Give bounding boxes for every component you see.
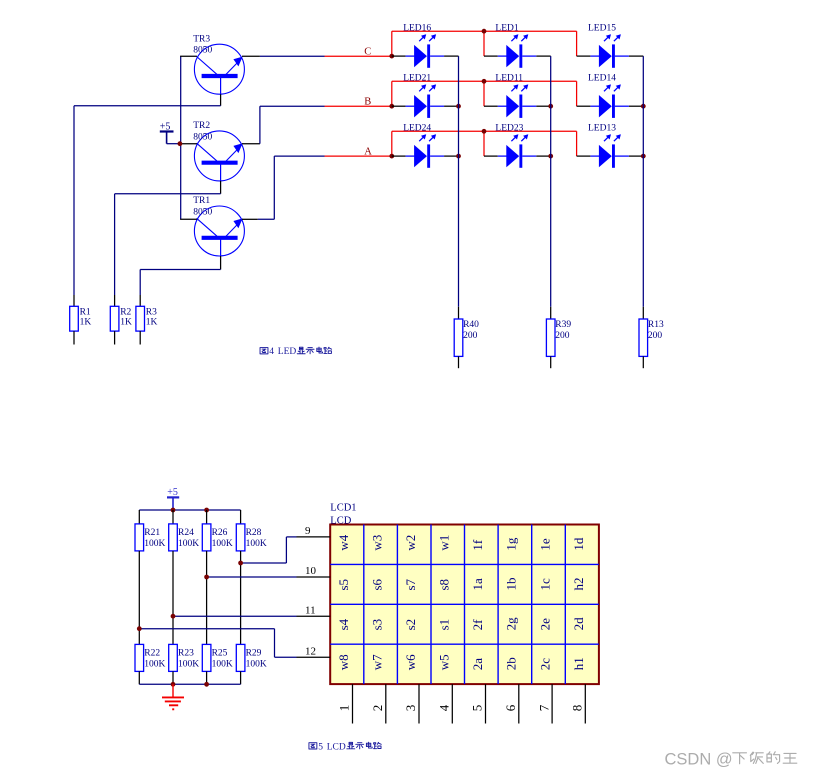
LCD cell label s8 <box>437 579 452 591</box>
LCD cell label w7 <box>369 654 384 670</box>
node: row C junction <box>389 54 394 59</box>
svg-text:LCD1: LCD1 <box>330 503 356 514</box>
wire: R29 top lead <box>240 563 242 644</box>
wire: cathode column 3 down to R13 <box>642 56 644 319</box>
LCD cell label 2c <box>537 658 552 671</box>
svg-text:s2: s2 <box>403 619 418 631</box>
wire: LED15 cathode <box>615 55 643 57</box>
svg-text:8050: 8050 <box>193 207 212 217</box>
wire: LED11 anode <box>484 105 507 107</box>
svg-text:200: 200 <box>648 331 663 341</box>
label LED24 <box>403 123 431 133</box>
node: bus drop junction row C <box>482 29 487 34</box>
node: +5 rail junction <box>178 141 183 146</box>
svg-text:s5: s5 <box>336 579 351 591</box>
svg-text:R25: R25 <box>212 649 228 659</box>
LCD cell label h1 <box>571 657 586 670</box>
svg-text:LED24: LED24 <box>403 123 431 133</box>
svg-text:w4: w4 <box>336 534 351 550</box>
wire: LED14 cathode <box>615 105 643 107</box>
resistor R21 (100K) <box>135 524 144 551</box>
svg-text:LED15: LED15 <box>588 23 616 33</box>
LED LED23 <box>506 134 528 167</box>
wire: net pin11 <box>173 615 297 617</box>
pin 2 <box>385 684 387 723</box>
wire: R1 top lead <box>73 295 75 306</box>
wire: row B red <box>325 105 392 107</box>
pin 12 <box>297 656 331 658</box>
label TR3 8050 <box>193 34 212 55</box>
svg-text:LED16: LED16 <box>403 23 431 33</box>
pin number 6 <box>503 704 518 711</box>
wire: TR2 emitter up to row B <box>260 106 325 144</box>
wire: red bus row B <box>392 81 577 106</box>
net label A <box>364 147 372 158</box>
resistor R29 (100K) <box>236 644 245 671</box>
wire: LED14 anode <box>577 105 600 107</box>
node: pin12 at R21/R22 <box>137 626 142 631</box>
svg-text:CSDN @: CSDN @ <box>665 751 733 769</box>
svg-text:w7: w7 <box>369 654 384 670</box>
resistor R23 (100K) <box>169 644 178 671</box>
pin 11 <box>297 615 331 617</box>
wire: row C red <box>325 55 392 57</box>
power +5 (top) <box>160 121 181 143</box>
LCD cell label 1c <box>537 578 552 591</box>
wire: R29 bottom lead <box>240 671 242 684</box>
label R39 200 <box>555 320 571 341</box>
svg-text:8: 8 <box>570 705 585 712</box>
label R26 100K <box>212 528 233 549</box>
wire: LED11 cathode <box>522 105 550 107</box>
transistor TR2 (8050) <box>194 131 244 181</box>
wire: LED23 cathode <box>522 155 550 157</box>
wire: LED24 anode <box>392 155 415 157</box>
LCD cell label s3 <box>369 619 384 631</box>
svg-text:1: 1 <box>337 705 352 712</box>
node: rail at R23 <box>171 682 176 687</box>
svg-text:R23: R23 <box>178 649 194 659</box>
svg-text:2d: 2d <box>571 617 586 631</box>
svg-text:1d: 1d <box>571 537 586 551</box>
LCD cell label s5 <box>336 579 351 591</box>
wire: R26 top lead <box>206 510 208 524</box>
LCD cell label s1 <box>437 619 452 631</box>
LCD cell label w1 <box>437 535 452 551</box>
svg-text:1a: 1a <box>470 578 485 591</box>
svg-text:200: 200 <box>555 331 570 341</box>
svg-text:2e: 2e <box>537 618 552 631</box>
node: column junction row B col 3 <box>641 104 646 109</box>
svg-text:8050: 8050 <box>193 46 212 56</box>
wire: rail to TR2 collector <box>181 143 197 145</box>
label R25 100K <box>212 649 233 670</box>
pin number 1 <box>337 705 352 712</box>
LCD cell label w2 <box>403 535 418 551</box>
caption 图4 LED显示电路 <box>260 347 332 357</box>
svg-text:2g: 2g <box>504 617 519 631</box>
svg-text:w1: w1 <box>437 535 452 551</box>
svg-text:2: 2 <box>370 705 385 712</box>
svg-text:LED11: LED11 <box>495 73 523 83</box>
svg-text:1K: 1K <box>146 317 158 327</box>
wire: row A red <box>325 155 392 157</box>
svg-text:A: A <box>364 147 372 158</box>
label R29 100K <box>246 649 267 670</box>
pin 6 <box>518 684 520 723</box>
node: rail at R26 <box>204 508 209 513</box>
svg-text:R1: R1 <box>80 308 91 318</box>
pin 8 <box>584 684 586 723</box>
wire: rail to TR3 collector <box>180 55 197 57</box>
svg-text:2a: 2a <box>470 658 485 671</box>
wire: cathode column 1 down to R40 <box>458 56 460 319</box>
svg-text:1b: 1b <box>504 578 519 591</box>
svg-text:w2: w2 <box>403 535 418 551</box>
label R1 1K <box>80 308 92 328</box>
net label B <box>364 97 371 108</box>
LCD cell label w3 <box>369 535 384 551</box>
label R28 100K <box>246 528 267 549</box>
label LCD1 <box>330 503 356 514</box>
resistor R26 (100K) <box>202 524 211 551</box>
ground <box>162 684 184 709</box>
node: column junction row A col 2 <box>548 154 553 159</box>
node: row A junction <box>389 154 394 159</box>
label LED14 <box>588 73 616 83</box>
pin number 11 <box>305 604 316 616</box>
svg-text:2f: 2f <box>470 619 485 631</box>
label R24 100K <box>178 528 199 549</box>
label LED11 <box>495 73 523 83</box>
LCD cell label 1g <box>504 537 519 551</box>
wire: LED21 cathode <box>430 105 458 107</box>
label R3 1K <box>146 308 158 328</box>
svg-text:LED13: LED13 <box>588 123 616 133</box>
wire: TR3 base to R1 <box>74 106 221 295</box>
svg-text:s7: s7 <box>403 578 418 590</box>
node: pin9 at R28/R29 <box>238 561 243 566</box>
node: pin10 at R26/R25 <box>204 575 209 580</box>
svg-text:1g: 1g <box>504 537 519 551</box>
wire: R28 top lead <box>240 510 242 524</box>
pin number 2 <box>370 705 385 712</box>
LCD cell label w5 <box>437 654 452 670</box>
svg-text:LCD: LCD <box>327 742 346 752</box>
wire: red drop to LED11 <box>483 81 485 106</box>
pin 9 <box>297 536 331 538</box>
svg-text:6: 6 <box>503 704 518 711</box>
label R23 100K <box>178 649 199 670</box>
wire: LED1 anode <box>484 55 507 57</box>
svg-text:s3: s3 <box>369 619 384 631</box>
svg-text:TR3: TR3 <box>193 34 210 44</box>
wire: TR3 emitter stub <box>242 55 260 57</box>
label R21 100K <box>144 528 165 549</box>
pin 10 <box>297 576 331 578</box>
pin number 8 <box>570 705 585 712</box>
svg-text:s8: s8 <box>437 579 452 591</box>
wire: TR2 base to R2 <box>115 194 221 295</box>
LCD cell label s2 <box>403 619 418 631</box>
LCD cell label h2 <box>571 578 586 591</box>
svg-text:LCD: LCD <box>330 515 351 526</box>
wire: R2 top lead <box>114 295 116 306</box>
label TR2 8050 <box>193 121 212 142</box>
node: bus drop junction row A <box>482 129 487 134</box>
svg-text:100K: 100K <box>144 660 165 670</box>
resistor R39 (200) <box>546 319 555 368</box>
svg-text:1e: 1e <box>537 538 552 551</box>
svg-text:R39: R39 <box>555 320 571 330</box>
svg-text:100K: 100K <box>178 660 199 670</box>
LCD cell label 1b <box>504 578 519 591</box>
svg-text:B: B <box>364 97 371 108</box>
wire: red drop to LED1 <box>483 31 485 56</box>
label R22 100K <box>144 649 165 670</box>
node: column junction row B col 2 <box>548 104 553 109</box>
label LED23 <box>495 123 523 133</box>
LCD cell label 1a <box>470 578 485 591</box>
wire: R24 top lead <box>172 510 174 524</box>
resistor R1 (1K) <box>70 306 79 344</box>
LCD cell label 1f <box>470 539 485 551</box>
wire: R22 top lead <box>138 629 140 645</box>
svg-text:w8: w8 <box>336 654 351 670</box>
resistor R22 (100K) <box>135 644 144 671</box>
svg-text:R40: R40 <box>463 320 479 330</box>
resistor R13 (200) <box>639 319 648 368</box>
wire: R23 bottom lead <box>172 671 174 684</box>
wire: red bus row A <box>392 131 577 156</box>
pin number 4 <box>437 704 452 711</box>
svg-text:LED: LED <box>278 347 297 357</box>
svg-text:TR1: TR1 <box>193 196 210 206</box>
svg-text:w6: w6 <box>403 654 418 670</box>
wire: TR1 base down <box>220 256 222 270</box>
svg-text:9: 9 <box>305 525 311 537</box>
svg-text:+5: +5 <box>160 121 171 132</box>
pin 7 <box>551 684 553 723</box>
LCD cell label 2a <box>470 658 485 671</box>
pin number 10 <box>305 565 317 577</box>
LCD cell label w6 <box>403 654 418 670</box>
LCD cell label 1e <box>537 538 552 551</box>
svg-text:LED23: LED23 <box>495 123 523 133</box>
svg-text:R2: R2 <box>120 308 131 318</box>
LCD cell label 2g <box>504 617 519 631</box>
svg-text:2b: 2b <box>504 657 519 670</box>
LCD cell label s4 <box>336 618 351 630</box>
svg-text:2c: 2c <box>537 658 552 671</box>
resistor R25 (100K) <box>202 644 211 671</box>
pin number 5 <box>470 705 485 712</box>
svg-text:R26: R26 <box>212 528 228 538</box>
LCD cell label w8 <box>336 654 351 670</box>
watermark CSDN @下饭的王 <box>665 751 797 769</box>
LED LED21 <box>414 84 436 118</box>
pin 1 <box>352 684 354 723</box>
LCD cell label 2e <box>537 618 552 631</box>
wire: +5 top rail <box>139 509 240 511</box>
svg-text:5: 5 <box>470 705 485 712</box>
wire: red drop to LED23 <box>483 131 485 156</box>
svg-text:200: 200 <box>463 331 478 341</box>
pin 4 <box>451 684 453 723</box>
LED LED11 <box>506 84 528 118</box>
svg-text:w3: w3 <box>369 535 384 551</box>
wire: TR3 base down <box>220 94 222 106</box>
wire: LED16 cathode <box>430 55 458 57</box>
resistor R28 (100K) <box>236 524 245 551</box>
wire: TR2 base down <box>220 181 222 194</box>
resistor R2 (1K) <box>110 306 119 344</box>
svg-text:100K: 100K <box>178 539 199 549</box>
pin number 12 <box>305 645 316 657</box>
node: pin11 at R24/R23 <box>171 614 176 619</box>
LCD cell label s6 <box>369 578 384 590</box>
svg-text:3: 3 <box>403 705 418 712</box>
wire: LED23 anode <box>484 155 507 157</box>
svg-text:s1: s1 <box>437 619 452 631</box>
LCD cell label s7 <box>403 578 418 590</box>
transistor TR1 (8050) <box>194 206 244 256</box>
svg-text:LED21: LED21 <box>403 73 431 83</box>
LED LED16 <box>414 34 436 68</box>
wire: cathode column 2 down to R39 <box>550 56 552 319</box>
wire: R21 bottom lead <box>138 551 140 629</box>
svg-text:w5: w5 <box>437 654 452 670</box>
wire: LED24 cathode <box>430 155 458 157</box>
wire: R25 top lead <box>206 577 208 644</box>
svg-text:LED1: LED1 <box>495 23 518 33</box>
label LED13 <box>588 123 616 133</box>
LED LED1 <box>506 34 528 68</box>
wire: net pin12 <box>139 629 296 658</box>
wire: LED13 cathode <box>615 155 643 157</box>
node: bus drop junction row B <box>482 79 487 84</box>
svg-text:1f: 1f <box>470 539 485 551</box>
resistor R40 (200) <box>454 319 463 368</box>
svg-text:7: 7 <box>536 704 551 711</box>
svg-text:1c: 1c <box>537 578 552 591</box>
wire: LED1 cathode <box>522 55 550 57</box>
wire: +5 rail vertical <box>180 56 182 219</box>
wire: TR1 base to R3 <box>140 270 220 296</box>
resistor R3 (1K) <box>136 306 145 344</box>
transistor TR3 (8050) <box>194 44 244 94</box>
wire: rail to TR1 collector <box>180 218 197 220</box>
wire: ground rail <box>139 683 240 685</box>
pin 3 <box>418 684 420 723</box>
svg-text:+5: +5 <box>167 487 178 498</box>
label R2 1K <box>120 308 132 328</box>
svg-text:12: 12 <box>305 645 316 657</box>
svg-text:R3: R3 <box>146 308 157 318</box>
wire: LED13 anode <box>577 155 600 157</box>
svg-text:100K: 100K <box>212 539 233 549</box>
wire: R21 top lead <box>138 510 140 524</box>
svg-text:5: 5 <box>318 742 323 752</box>
label LED21 <box>403 73 431 83</box>
pin number 3 <box>403 705 418 712</box>
power +5 (bottom) <box>167 487 179 510</box>
node: column junction row B col 1 <box>456 104 461 109</box>
svg-text:s4: s4 <box>336 618 351 630</box>
svg-text:LED14: LED14 <box>588 73 616 83</box>
wire: LED16 anode <box>392 55 415 57</box>
LCD cell label 2b <box>504 657 519 670</box>
svg-text:4: 4 <box>437 704 452 711</box>
pin 5 <box>485 684 487 723</box>
label R13 200 <box>648 320 664 341</box>
label LED15 <box>588 23 616 33</box>
wire: LED15 anode <box>577 55 600 57</box>
svg-text:11: 11 <box>305 604 316 616</box>
label R40 200 <box>463 320 479 341</box>
wire: R25 bottom lead <box>206 671 208 684</box>
svg-text:R28: R28 <box>246 528 262 538</box>
svg-text:R13: R13 <box>648 320 664 330</box>
wire: red bus row C <box>392 31 577 56</box>
node: column junction row A col 3 <box>641 154 646 159</box>
svg-text:1K: 1K <box>80 317 92 327</box>
pin number 9 <box>305 525 311 537</box>
wire: TR1 emitter up to row A <box>258 156 325 219</box>
svg-text:TR2: TR2 <box>193 121 210 131</box>
caption 图5 LCD显示电路 <box>309 742 381 752</box>
LED LED15 <box>599 34 621 68</box>
svg-text:100K: 100K <box>144 539 165 549</box>
svg-text:h2: h2 <box>571 578 586 591</box>
LED LED24 <box>414 134 436 167</box>
wire: row C navy <box>260 55 325 57</box>
svg-text:R21: R21 <box>144 528 160 538</box>
LCD cell label w4 <box>336 534 351 550</box>
net label C <box>364 47 371 58</box>
wire: R3 top lead <box>139 295 141 306</box>
node: rail at R25 <box>204 682 209 687</box>
svg-text:C: C <box>364 47 371 58</box>
svg-text:4: 4 <box>269 347 274 357</box>
svg-text:1K: 1K <box>120 317 132 327</box>
LCD cell label 2f <box>470 619 485 631</box>
wire: R26 bottom lead <box>206 551 208 577</box>
svg-text:10: 10 <box>305 565 317 577</box>
wire: R22 bottom lead <box>138 671 140 684</box>
svg-text:R24: R24 <box>178 528 194 538</box>
svg-text:100K: 100K <box>246 660 267 670</box>
node: rail at R24 <box>171 508 176 513</box>
svg-text:8050: 8050 <box>193 132 212 142</box>
svg-text:R22: R22 <box>144 649 160 659</box>
svg-text:R29: R29 <box>246 649 262 659</box>
svg-text:100K: 100K <box>212 660 233 670</box>
LED LED14 <box>599 84 621 118</box>
wire: TR1 emitter stub <box>242 218 258 220</box>
svg-text:s6: s6 <box>369 578 384 590</box>
resistor R24 (100K) <box>169 524 178 551</box>
wire: R24 bottom lead <box>172 551 174 616</box>
node: column junction row A col 1 <box>456 154 461 159</box>
label TR1 8050 <box>193 196 212 217</box>
wire: LED21 anode <box>392 105 415 107</box>
node: row B junction <box>389 104 394 109</box>
svg-text:100K: 100K <box>246 539 267 549</box>
label LED16 <box>403 23 431 33</box>
wire: net pin10 <box>207 576 297 578</box>
wire: net pin9 <box>241 537 297 563</box>
